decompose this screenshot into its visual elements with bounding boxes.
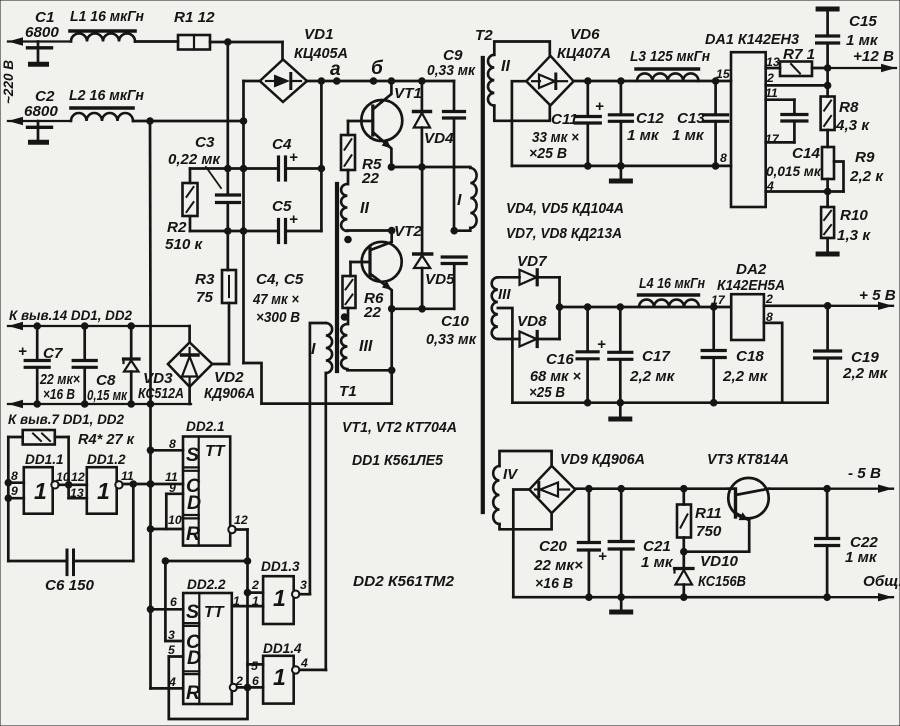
riser pin12 signal down	[246, 561, 249, 687]
DD1.1 output bubble	[51, 481, 58, 488]
bridge rectifier VD2	[168, 342, 212, 386]
svg-text:VT1: VT1	[394, 85, 422, 102]
svg-text:R2: R2	[167, 219, 187, 236]
node b	[370, 77, 378, 85]
svg-text:C20: C20	[539, 538, 567, 555]
pointer line C3 label	[206, 167, 221, 188]
wire to bridge VD1 top corner	[281, 42, 284, 60]
svg-text:L4 16 мкГн: L4 16 мкГн	[639, 275, 705, 292]
wire VT2 emitter snubber node	[392, 307, 455, 310]
svg-text:VD5: VD5	[425, 271, 455, 288]
svg-text:C3: C3	[195, 134, 215, 151]
svg-text:КС512А: КС512А	[138, 385, 184, 402]
svg-text:22: 22	[361, 170, 379, 187]
wire y168 (C3/R2 top to C4)	[190, 167, 278, 170]
svg-text:TT: TT	[205, 443, 226, 460]
svg-text:DD1.1: DD1.1	[25, 452, 64, 467]
wire K vyv.14 DD1,DD2	[8, 325, 190, 327]
svg-text:II: II	[501, 58, 510, 75]
svg-text:Общ.: Общ.	[863, 573, 900, 590]
svg-text:8: 8	[720, 151, 727, 165]
capacitor C10	[442, 255, 466, 258]
wire L1 to R1	[135, 40, 178, 43]
svg-text:1 мк: 1 мк	[672, 127, 705, 144]
svg-text:L3 125 мкГн: L3 125 мкГн	[630, 48, 710, 65]
svg-text:T2: T2	[475, 27, 493, 44]
winding II of T1	[341, 184, 347, 231]
wire y403 line B to VT2 emitter	[262, 402, 392, 405]
wire R3 to VD2 right corner	[212, 363, 229, 366]
svg-text:×300 В: ×300 В	[256, 309, 300, 326]
svg-text:C16: C16	[546, 351, 574, 368]
svg-text:C17: C17	[642, 348, 671, 365]
flip-flop DD2.2	[183, 593, 232, 704]
svg-text:IV: IV	[503, 466, 519, 483]
winding IV of T2	[493, 466, 499, 524]
svg-text:R9: R9	[855, 149, 875, 166]
DA2 pin8 wire	[764, 323, 782, 403]
svg-text:C13: C13	[677, 110, 705, 127]
svg-text:II: II	[360, 200, 369, 217]
svg-text:4,3 к: 4,3 к	[835, 117, 870, 134]
+12 rail top	[574, 80, 731, 83]
svg-text:+: +	[597, 336, 606, 353]
svg-text:×16 В: ×16 В	[535, 575, 573, 592]
wire L2 to bridge left corner line	[133, 120, 244, 123]
VD6 left corner to gnd rail	[512, 81, 526, 166]
diode VD5	[421, 167, 424, 253]
DD2.1 output bubble pin12	[228, 526, 235, 533]
control rail vertical x150	[149, 121, 152, 326]
capacitor C2	[37, 121, 40, 126]
svg-text:III: III	[498, 286, 511, 303]
svg-text:+: +	[598, 548, 607, 565]
svg-text:2,2 мк: 2,2 мк	[722, 368, 769, 385]
DD1.3 output bubble pin3	[292, 591, 299, 598]
svg-text:VD8: VD8	[517, 313, 547, 330]
+12V output wire	[812, 67, 828, 70]
svg-text:VD7, VD8 КД213А: VD7, VD8 КД213А	[506, 225, 622, 242]
ground symbol under C12	[620, 166, 623, 179]
node dot line C	[318, 77, 326, 85]
svg-text:R: R	[186, 523, 200, 545]
main bus from bridge VD1 (nodes a,b)	[307, 80, 454, 83]
svg-text:D: D	[187, 492, 201, 514]
svg-text:75: 75	[196, 289, 213, 306]
winding I of T2	[470, 168, 476, 228]
svg-text:I: I	[311, 341, 316, 358]
capacitor C5	[277, 220, 280, 243]
svg-text:1: 1	[273, 585, 286, 611]
svg-text:0,015 мк: 0,015 мк	[766, 164, 822, 179]
resistor R6	[349, 262, 352, 276]
svg-text:6800: 6800	[25, 24, 59, 41]
svg-text:DD1.4: DD1.4	[263, 641, 302, 656]
svg-text:C11: C11	[551, 111, 578, 128]
ground under C21	[620, 597, 623, 609]
-5 rail	[575, 487, 728, 490]
svg-text:68 мк ×: 68 мк ×	[530, 368, 581, 385]
svg-text:DD1.2: DD1.2	[87, 452, 126, 467]
svg-text:VD7: VD7	[517, 253, 548, 270]
svg-text:DD2 К561ТМ2: DD2 К561ТМ2	[353, 573, 455, 590]
capacitor C12	[620, 81, 623, 115]
svg-text:9: 9	[169, 481, 176, 495]
svg-text:13: 13	[70, 486, 84, 500]
DD2.1 pin10 R wire	[151, 528, 184, 531]
svg-text:1 мк: 1 мк	[641, 554, 674, 571]
svg-text:C15: C15	[849, 13, 877, 30]
bottom U loop to pin2	[169, 687, 248, 719]
T2 core	[481, 58, 485, 512]
ground under R10	[818, 252, 837, 257]
node junction R1 output	[224, 38, 232, 46]
svg-text:DA2: DA2	[736, 261, 767, 278]
capacitor C7	[36, 326, 39, 361]
svg-text:12: 12	[71, 470, 85, 484]
capacitor C22	[826, 489, 829, 539]
svg-text:11: 11	[121, 469, 134, 483]
svg-text:C7: C7	[43, 345, 64, 362]
svg-text:- 5 В: - 5 В	[848, 465, 881, 482]
feedback wire y561	[165, 560, 247, 563]
winding I top lead to DD1.3 output riser	[310, 323, 326, 594]
svg-text:12: 12	[234, 513, 248, 527]
resistor R10	[821, 207, 834, 238]
svg-text:4: 4	[766, 179, 774, 193]
svg-text:TT: TT	[204, 604, 225, 621]
regulator DA2	[731, 294, 764, 340]
wire to VD2 top corner	[188, 326, 191, 342]
capacitor C3	[217, 193, 240, 196]
svg-text:×16 В: ×16 В	[43, 386, 75, 403]
svg-text:R1 12: R1 12	[174, 9, 215, 26]
svg-text:C19: C19	[851, 349, 879, 366]
svg-text:C14: C14	[792, 145, 821, 162]
svg-text:6: 6	[170, 595, 177, 609]
resistor R3	[222, 270, 236, 303]
svg-text:а: а	[330, 59, 341, 80]
node VT1 collector	[388, 77, 396, 85]
riser to DD2.2 S and C	[164, 561, 167, 641]
capacitor C17	[619, 307, 622, 352]
svg-text:R4* 27 к: R4* 27 к	[78, 431, 135, 448]
wire y231 (R2 bottom to C5)	[190, 230, 278, 233]
svg-text:L1 16 мкГн: L1 16 мкГн	[70, 8, 144, 25]
svg-text:8: 8	[169, 437, 176, 451]
svg-text:VD4, VD5 КД104А: VD4, VD5 КД104А	[506, 200, 624, 217]
node a	[333, 77, 341, 85]
capacitor C1	[37, 42, 40, 47]
junction mains to line B	[240, 117, 248, 125]
bridge rectifier VD1	[260, 60, 307, 103]
DD1.4 pin5 wire	[248, 663, 264, 666]
svg-text:VD1: VD1	[304, 26, 334, 43]
capacitor C6 loop	[8, 560, 65, 563]
svg-text:3: 3	[168, 628, 175, 642]
resistor R5	[347, 121, 350, 135]
inductor L1	[71, 34, 135, 42]
capacitor C9	[444, 110, 465, 113]
phasing dot winding II	[344, 236, 352, 244]
gate DD1.1	[24, 467, 53, 514]
DD1.4 output bubble pin4	[292, 666, 299, 673]
line A vertical (R1 junction down through C3,R3)	[226, 42, 229, 195]
svg-text:0,22 мк: 0,22 мк	[168, 151, 221, 168]
svg-text:2,2 мк: 2,2 мк	[842, 365, 889, 382]
svg-text:КС156В: КС156В	[698, 573, 746, 590]
inductor L2	[71, 113, 133, 121]
DD2.2 S pin6 wire	[151, 608, 184, 611]
svg-text:750: 750	[696, 523, 722, 540]
svg-text:б: б	[371, 58, 384, 79]
svg-text:R: R	[186, 682, 200, 704]
svg-text:2,2 мк: 2,2 мк	[629, 368, 676, 385]
resistor R4	[8, 436, 22, 439]
resistor R11	[682, 489, 685, 505]
svg-text:4: 4	[168, 675, 176, 689]
svg-text:1 мк: 1 мк	[845, 549, 878, 566]
+5 gnd rail	[512, 401, 827, 404]
svg-text:22: 22	[363, 304, 381, 321]
DD1.3 pin2 wire	[248, 591, 264, 594]
gate DD1.3	[263, 576, 294, 624]
DD2.2 R pin4 wire	[151, 687, 184, 690]
svg-text:33 мк ×: 33 мк ×	[532, 129, 579, 146]
wire winding II bottom to VT2 collector	[347, 229, 391, 232]
svg-text:I: I	[457, 192, 462, 209]
diode VD4	[421, 81, 424, 110]
DA1 pin13 and R7	[766, 67, 780, 70]
transistor VT3	[728, 478, 768, 518]
DA1 pin2 wire	[766, 84, 828, 87]
svg-text:DD2.1: DD2.1	[186, 419, 225, 434]
R4 riser and pin13 tie	[67, 437, 70, 498]
svg-text:+: +	[289, 211, 298, 228]
svg-text:КД906А: КД906А	[204, 385, 255, 402]
winding III center tap	[498, 308, 513, 403]
svg-text:VD2: VD2	[214, 369, 244, 386]
svg-text:C12: C12	[636, 110, 664, 127]
svg-text:1: 1	[273, 664, 286, 690]
DD2.1 pin9 D wire	[166, 492, 183, 495]
T1 core	[335, 184, 339, 371]
common rail Obsh	[513, 596, 827, 599]
svg-text:8: 8	[11, 469, 18, 483]
svg-text:5: 5	[168, 643, 175, 657]
capacitor C13	[714, 81, 717, 115]
svg-text:510 к: 510 к	[165, 236, 204, 253]
transistor VT2	[362, 242, 402, 282]
DA1 pin11/17 and C14	[766, 98, 795, 101]
mains input arrow (top line)	[8, 40, 71, 42]
svg-text:8: 8	[766, 310, 773, 324]
svg-text:0,33 мк: 0,33 мк	[427, 62, 476, 79]
svg-text:D: D	[187, 647, 201, 669]
DD2.2 output bubble pin2	[230, 684, 237, 691]
svg-text:2: 2	[766, 71, 774, 85]
capacitor C4	[277, 157, 280, 180]
DD2.2 pin1 to DD1.3 pin1 wire	[232, 605, 263, 608]
resistor R9 (with tap)	[826, 130, 829, 147]
node VD4	[418, 77, 426, 85]
inductor L3	[637, 73, 699, 81]
svg-text:VD9 КД906А: VD9 КД906А	[560, 451, 645, 468]
svg-text:22 мк×: 22 мк×	[533, 557, 583, 574]
svg-text:К142ЕН5А: К142ЕН5А	[717, 277, 785, 294]
svg-text:1: 1	[34, 478, 47, 504]
winding I of T1	[326, 323, 332, 373]
svg-text:VD4: VD4	[424, 130, 454, 147]
resistor R2	[189, 169, 192, 184]
svg-text:0,15 мк: 0,15 мк	[87, 387, 128, 404]
DA2 pin2 +5V output	[764, 304, 828, 307]
svg-text:DD2.2: DD2.2	[187, 577, 226, 592]
svg-text:T1: T1	[339, 383, 357, 400]
svg-text:S: S	[186, 444, 199, 466]
svg-text:2: 2	[251, 578, 259, 592]
transistor VT1	[361, 100, 402, 141]
line B jog to wire y403	[244, 363, 262, 404]
winding I bottom lead to DD1.4 output riser	[324, 373, 327, 670]
capacitor C18	[712, 307, 715, 351]
svg-text:C4, C5: C4, C5	[256, 271, 304, 288]
gate DD1.2	[87, 467, 117, 514]
wire VT1 emitter node	[391, 166, 470, 169]
phasing dot winding III	[341, 313, 349, 321]
wire bridge left corner to line B	[244, 80, 260, 83]
svg-text:C10: C10	[441, 313, 469, 330]
svg-text:К выв.7 DD1, DD2: К выв.7 DD1, DD2	[8, 412, 124, 427]
wire K vyv.7 DD1,DD2	[8, 403, 191, 405]
DD1.2 output bubble	[115, 481, 122, 488]
svg-text:17: 17	[711, 293, 726, 307]
svg-text:R11: R11	[695, 505, 722, 522]
svg-text:+: +	[18, 343, 27, 360]
svg-text:+12 В: +12 В	[853, 48, 894, 65]
line C vertical (bus to C4/C5 right)	[320, 81, 323, 231]
svg-text:5: 5	[251, 659, 258, 673]
winding III of T2	[492, 277, 498, 339]
DA1 pin4 wire	[766, 190, 844, 193]
svg-text:15: 15	[716, 67, 730, 81]
svg-text:~220 В: ~220 В	[1, 60, 16, 104]
resistor R8	[826, 68, 829, 97]
svg-text:2,2 к: 2,2 к	[849, 168, 884, 185]
svg-text:VT3 КТ814А: VT3 КТ814А	[707, 451, 789, 468]
zener diode VD10	[682, 552, 685, 567]
svg-text:R3: R3	[195, 271, 215, 288]
svg-text:К выв.14 DD1, DD2: К выв.14 DD1, DD2	[9, 308, 132, 323]
svg-text:C21: C21	[643, 538, 671, 555]
svg-text:DD1.3: DD1.3	[261, 559, 300, 574]
svg-text:+: +	[289, 149, 298, 166]
svg-text:1: 1	[97, 478, 110, 504]
svg-text:2: 2	[235, 674, 243, 688]
wire winding III bottom	[347, 369, 391, 372]
+5 rail top	[560, 306, 732, 309]
VD2 bottom stub	[188, 387, 191, 404]
mains input arrow (bottom line)	[8, 120, 71, 122]
svg-text:S: S	[186, 601, 199, 623]
svg-text:47 мк ×: 47 мк ×	[252, 291, 299, 308]
svg-text:1 мк: 1 мк	[627, 127, 660, 144]
flip-flop DD2.1	[183, 437, 230, 546]
svg-text:+: +	[595, 98, 604, 115]
bridge rectifier VD6	[526, 56, 573, 106]
svg-text:1: 1	[233, 594, 240, 608]
svg-text:×25 В: ×25 В	[529, 145, 567, 162]
inductor L4	[639, 300, 699, 307]
capacitor C21	[620, 489, 623, 542]
diode VD7	[498, 276, 520, 279]
svg-text:9: 9	[11, 484, 18, 498]
svg-text:13: 13	[766, 55, 780, 69]
diode VD8	[498, 338, 520, 341]
svg-text:×25 В: ×25 В	[529, 384, 565, 401]
svg-text:1: 1	[252, 594, 259, 608]
svg-text:R8: R8	[839, 99, 859, 116]
svg-text:R7 1: R7 1	[783, 46, 815, 63]
capacitor C20	[588, 489, 591, 543]
svg-text:+ 5 В: + 5 В	[859, 287, 896, 304]
resistor R1	[178, 35, 210, 50]
DD2.1 pin8 wire	[151, 449, 184, 452]
gate DD1.4	[263, 656, 294, 704]
svg-text:11: 11	[765, 86, 778, 100]
wire VT3 emitter to R11	[684, 550, 749, 553]
capacitor C15	[818, 7, 837, 12]
VD9 left corner to common rail	[513, 490, 529, 598]
+12 gnd rail	[512, 165, 731, 168]
svg-text:6: 6	[252, 674, 259, 688]
svg-text:VD10: VD10	[700, 553, 739, 570]
left loop vertical	[7, 437, 10, 561]
svg-text:1 мк: 1 мк	[846, 32, 879, 49]
svg-text:С6 150: С6 150	[45, 577, 95, 594]
capacitor C8	[83, 326, 86, 361]
ground under C17	[619, 403, 622, 417]
svg-text:17: 17	[765, 132, 780, 146]
DD2.2 D pin5 wire	[169, 655, 183, 658]
svg-text:1,3 к: 1,3 к	[837, 227, 871, 244]
winding II of T2	[488, 55, 494, 106]
zener diode VD3	[130, 326, 133, 358]
svg-text:4: 4	[300, 656, 308, 670]
junction mains to control rail	[146, 117, 154, 125]
svg-text:VT1, VT2 КТ704А: VT1, VT2 КТ704А	[342, 419, 457, 436]
svg-text:0,33 мк: 0,33 мк	[426, 331, 477, 348]
svg-text:VD6: VD6	[570, 26, 600, 43]
DD2.2 C pin3 wire	[165, 640, 183, 643]
svg-text:3: 3	[300, 578, 307, 592]
svg-text:DD1 К561ЛЕ5: DD1 К561ЛЕ5	[352, 452, 444, 469]
svg-text:III: III	[359, 338, 373, 355]
bridge rectifier VD9	[529, 466, 575, 513]
svg-text:C18: C18	[736, 348, 764, 365]
svg-text:2: 2	[765, 292, 773, 306]
svg-text:VT2: VT2	[394, 223, 422, 240]
capacitor C11	[586, 81, 589, 117]
winding III of T1	[341, 324, 347, 369]
svg-text:6800: 6800	[24, 103, 58, 120]
svg-text:КЦ407А: КЦ407А	[557, 45, 611, 62]
svg-text:R10: R10	[840, 207, 868, 224]
svg-text:L2 16 мкГн: L2 16 мкГн	[69, 87, 144, 104]
svg-text:10: 10	[168, 513, 182, 527]
capacitor C16	[586, 307, 589, 352]
regulator DA1	[731, 52, 766, 207]
